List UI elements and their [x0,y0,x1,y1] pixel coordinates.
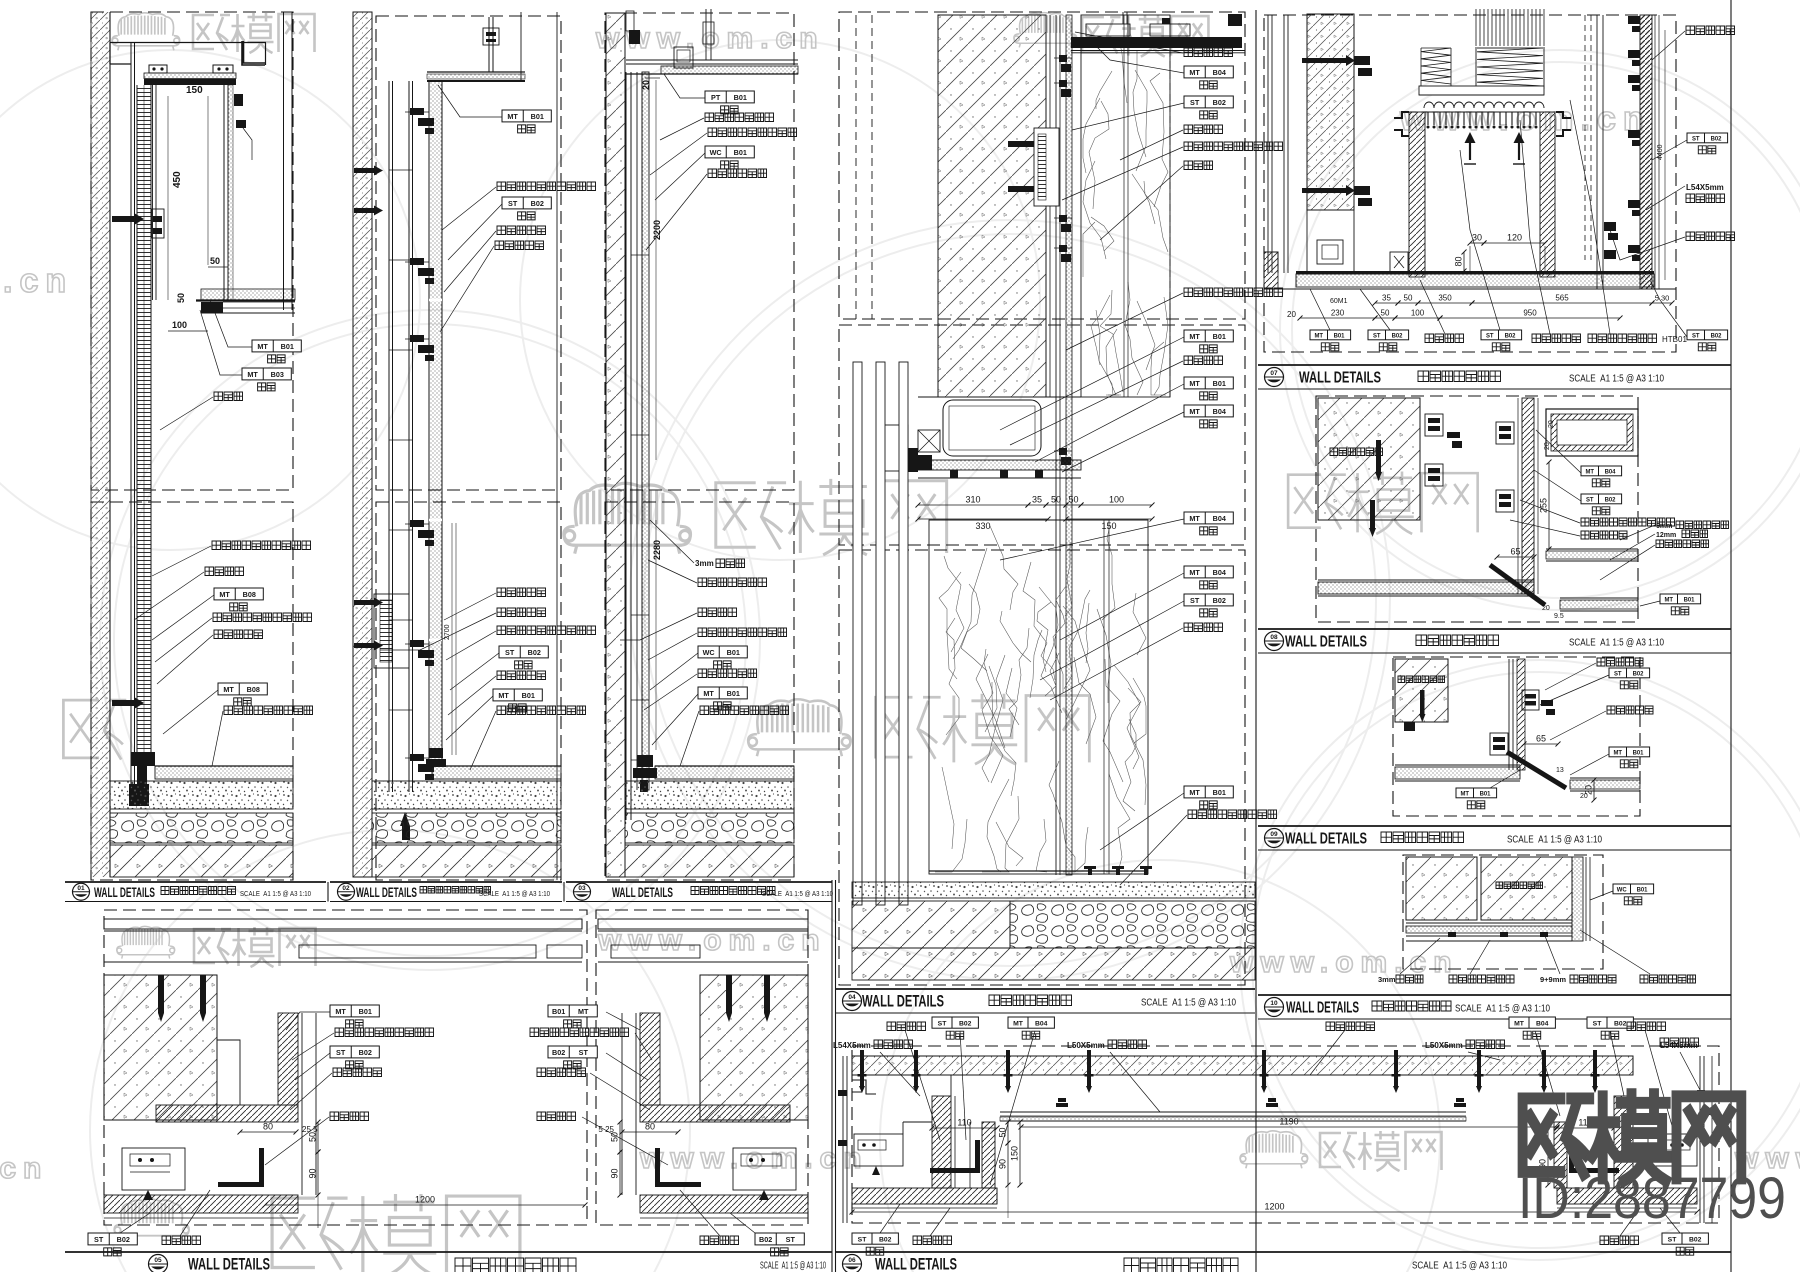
panel01 hanger channel [149,65,167,73]
svg-text:330: 330 [975,521,990,531]
svg-text:90: 90 [610,1168,620,1178]
panel07 dim 4400 rotated [1664,30,1666,280]
svg-text:35: 35 [1382,294,1391,303]
panel07 label drymount joint right [1686,26,1735,35]
panel07 stone column right [1640,15,1652,289]
svg-text:B02: B02 [552,1048,565,1057]
svg-text:B01: B01 [1480,791,1492,797]
svg-text:SCALE A1 1:5 @ A3 1:10: SCALE A1 1:5 @ A3 1:10 [1141,997,1236,1009]
svg-text:MT: MT [1460,791,1469,797]
panel06 right cove left leg [1554,1122,1567,1188]
panel04 label floor note [1188,810,1277,819]
panel03 label PT B01 [705,91,754,103]
panel04 label MT B04 top [1184,66,1233,78]
svg-text:90: 90 [998,1159,1008,1169]
svg-text:06: 06 [848,1257,856,1264]
panel01 floor build-up bands [155,766,293,779]
watermark logo middle [748,699,850,756]
panel05 bottom label B02 ST right [755,1233,804,1245]
svg-text:1190: 1190 [1279,1117,1298,1127]
panel07 duct column right [1540,112,1555,277]
panel04 stone clips upper [1059,55,1067,62]
panel01 label MT B08 upper [214,588,263,600]
svg-text:B01: B01 [552,1007,565,1016]
panel03 floor build-up bands [655,766,794,779]
panel05 bottom label metal plate left [162,1236,201,1245]
panel01 fastener top-right [234,94,243,106]
panel04 label ST B02 d [1184,594,1233,606]
panel06 top label MT B04 right [1509,1017,1555,1028]
panel07 dim 80v [1463,252,1465,271]
panel02 label ST B02 lower [499,646,548,658]
panel04 dashed border a [839,12,1245,319]
panel05 left concrete block [104,975,217,1120]
svg-text:B02: B02 [1392,333,1404,339]
panel01 wall double line [130,43,132,800]
panel04 label lamp d [1184,623,1223,632]
svg-text:B02: B02 [1213,98,1226,107]
panel05 left step profile [217,1040,240,1105]
sheet divider vertical mid-left [831,880,833,1272]
svg-text:MT: MT [1189,568,1200,577]
svg-text:50: 50 [1068,495,1078,505]
panel05 right metal angle [655,1182,701,1187]
svg-text:02: 02 [342,885,350,892]
svg-text:ST: ST [938,1020,948,1027]
svg-text:150: 150 [1010,1146,1020,1161]
svg-text:10: 10 [1270,1000,1278,1007]
svg-text:12mm: 12mm [1656,532,1676,539]
panel04 label ST B02 top [1184,96,1233,108]
panel06 top label metal hanger [1326,1022,1375,1031]
panel05 dims vertical right [619,1122,621,1152]
panel02 existing wall hatch strip [353,12,372,877]
svg-text:13: 13 [1556,767,1564,774]
svg-text:B01: B01 [359,1007,372,1016]
svg-text:B01: B01 [522,691,535,700]
panel01 ladder column [137,85,151,766]
svg-text:om.cn: om.cn [0,1152,48,1185]
panel08 block label [1330,448,1383,456]
svg-text:ST: ST [1593,1020,1603,1027]
panel06 right cove leg [1614,1096,1633,1188]
panel03 existing wall hatch strip [606,13,625,877]
panel01 clip lower left [112,700,134,706]
svg-text:B01: B01 [1334,333,1346,339]
svg-text:ID:2887799: ID:2887799 [1518,1166,1786,1231]
panel06 dims vertical left [1007,1122,1009,1143]
svg-text:L50X5mm: L50X5mm [1425,1041,1463,1050]
panel03 label steel stud base lower [698,669,757,678]
svg-text:65: 65 [1536,734,1546,744]
panel02 stone clips [410,108,424,115]
svg-text:ST: ST [94,1235,104,1244]
svg-text:MT: MT [498,691,509,700]
panel04 marble slab lower [929,520,1148,874]
panel06 left lamp box [854,1134,903,1166]
panel10 label stud fixing [1449,975,1514,983]
panel09 clips [1522,690,1539,710]
panel07 left slats [1267,15,1269,273]
title bar 06 WALL DETAILS wall horizontal section [836,1251,1731,1253]
svg-text:09: 09 [1270,831,1278,838]
panel07 label vent louver [1588,334,1657,343]
panel01 label original column [205,567,244,576]
svg-text:MT: MT [1613,750,1622,756]
panel05 ceiling slab lines A [104,919,582,929]
sheet divider vertical mid-right [1255,10,1257,1272]
svg-text:ST: ST [858,1236,868,1243]
svg-text:B01: B01 [531,112,544,121]
svg-text:50: 50 [998,1127,1008,1137]
title divider T1/T2 [327,882,329,902]
panel02 ceiling bar [427,71,525,73]
svg-text:05: 05 [154,1257,162,1264]
svg-text:B02: B02 [959,1020,972,1027]
panel04 label joint [1184,161,1213,170]
svg-text:MT: MT [578,1007,589,1016]
watermark logo center-right [1288,472,1478,534]
panel03 label WC B01 lower [698,646,747,658]
svg-text:50: 50 [1051,495,1061,505]
panel04 concrete wall hatch [938,15,1046,397]
panel01 dashed border upper [91,12,293,490]
panel06 bottom label metal plate right [1600,1236,1639,1245]
panel01 ceiling slab line [110,42,266,44]
panel06 right wall assembly [1699,1056,1701,1223]
panel10 dashed border [1403,855,1603,969]
panel04 label galv angle [1184,142,1283,151]
panel05 label stone fixing left [333,1068,382,1077]
panel06 bottom label ST B02 left [852,1233,898,1244]
panel04 blind slats [853,362,862,905]
panel08 label MT B04 [1581,466,1622,476]
panel01 label MT B03 [242,368,291,380]
panel08 label galv angle [1581,518,1675,526]
watermark big logo bottom-right [1523,1094,1742,1180]
panel06 dim 110 left [932,1127,997,1129]
title bar 05 WALL DETAILS wall horizontal section [65,1251,832,1253]
panel03 label cement board lower [698,628,787,637]
title bar 09 WALL DETAILS wall horizontal section [1258,825,1731,827]
svg-text:MT: MT [257,342,268,351]
svg-text:HTB01: HTB01 [1662,335,1687,344]
svg-text:ST: ST [579,1048,589,1057]
svg-text:MT: MT [223,685,234,694]
svg-text:50: 50 [1404,294,1413,303]
panel04 sill supports [950,470,958,478]
svg-text:B04: B04 [1213,68,1226,77]
watermark sofa+logo bottomleft-paneltop [117,926,175,958]
panel01 ceiling angle right [242,41,265,65]
panel02 label floor note lower [497,706,586,715]
panel08 clips on block [1425,414,1443,436]
panel07 anchor bolts left [1302,58,1346,63]
panel06 bottom label ST B02 right [1662,1233,1708,1244]
svg-text:90: 90 [308,1168,318,1178]
svg-text:450: 450 [172,171,183,188]
panel03 wall lines [625,72,627,820]
panel07 label ST B02 bottom b [1481,330,1522,340]
panel08 mid right bars [1546,548,1638,550]
panel07 comb teeth [1428,112,1536,125]
title bar 01 WALL DETAILS structural column section [65,881,326,883]
svg-text:230: 230 [1331,309,1345,318]
panel04 label MT B04 c [1184,512,1233,524]
svg-text:B02: B02 [359,1048,372,1057]
panel04 label MT B01 b [1184,377,1233,389]
svg-text:B02: B02 [879,1236,892,1243]
panel02 label MT B01 [502,110,551,122]
panel02 floor build-up bands [432,766,561,779]
panel07 concrete column [1307,14,1354,210]
svg-text:950: 950 [1523,309,1537,318]
panel06 left cove leg [932,1096,951,1188]
panel04 marble joints upper [1123,15,1125,397]
title bar 03 WALL DETAILS fabric wall section [566,881,832,883]
panel06 left cove wall lines [954,1096,956,1188]
panel05 right anchors [726,975,732,1013]
panel07 dims 30 120 [1470,242,1484,244]
svg-text:60M1: 60M1 [1330,298,1348,305]
svg-text:WC: WC [710,148,723,157]
panel09 diagonal connector [1507,752,1566,788]
panel02 label stone anchor lower [497,671,546,680]
panel05 left anchors [158,975,164,1013]
panel05 label B02 ST right [548,1046,597,1058]
panel08 wall column [1522,398,1534,594]
panel02 dim extension [451,523,453,755]
svg-text:1200: 1200 [1264,1202,1284,1212]
svg-text:120: 120 [1507,233,1522,243]
svg-text:04: 04 [848,994,856,1001]
panel03 board strip stippled [642,72,649,790]
panel06 left cove angle [930,1168,980,1173]
panel04 ceiling hanger boxes [1086,24,1130,36]
panel07 bracket right [1556,112,1571,136]
panel05 bottom label ST B02 left [88,1233,137,1245]
svg-text:ST: ST [505,648,515,657]
panel05 left lamp fixture [122,1148,185,1190]
panel06 top label ST B02 left [932,1017,978,1028]
panel04 marble slab upper [1081,15,1170,397]
svg-text:B04: B04 [1213,568,1226,577]
svg-text:B04: B04 [1605,469,1617,475]
panel02 label MT B01 lower [493,689,542,701]
panel03 dashed border upper [605,13,794,490]
svg-text:50: 50 [308,1132,318,1142]
svg-text:50: 50 [210,256,220,266]
panel01 leader joint gap [214,392,243,401]
panel06 dim 1190 [1021,1126,1557,1128]
panel07 label ST B02 right upper [1687,133,1728,143]
panel05 left cove structure [278,1013,298,1105]
svg-text:MT: MT [703,689,714,698]
panel06 left edge assembly [842,1056,844,1223]
svg-text:50: 50 [176,293,186,303]
svg-text:9+9mm: 9+9mm [1540,975,1566,984]
svg-text:SCALE A1 1:5 @ A3 1:10: SCALE A1 1:5 @ A3 1:10 [1569,638,1664,649]
panel07 dashed border [1264,15,1676,352]
svg-text:B03: B03 [271,370,284,379]
panel02 stone joints [429,299,442,302]
svg-text:MT: MT [1664,597,1673,603]
svg-text:ST: ST [1190,596,1200,605]
panel02 label drymount joint [495,241,544,250]
panel09 label ST B02 [1609,668,1650,678]
svg-text:20: 20 [1542,605,1550,612]
svg-text:01: 01 [77,885,85,892]
panel07 scalloped diffuser [1424,102,1544,108]
svg-text:B02: B02 [1711,333,1723,339]
svg-text:MT: MT [1189,788,1200,797]
title bar 08 WALL DETAILS wall horizontal section [1258,628,1731,630]
panel03 label MT B01 lower [698,687,747,699]
svg-text:MT: MT [247,370,258,379]
panel02 furring studs [388,81,390,792]
title divider T2/T3 [563,882,565,902]
svg-text:B02: B02 [1505,333,1517,339]
svg-text:20: 20 [1548,420,1555,428]
panel01 label MT B01 [252,340,301,352]
svg-text:www.om.cn: www.om.cn [1229,946,1459,979]
title bar 02 WALL DETAILS stone wall section [330,881,562,883]
svg-text:L54X5mm: L54X5mm [833,1041,871,1050]
panel06 dim 110 right [1557,1127,1614,1129]
panel01 inner wall lines [152,85,154,300]
svg-text:om.cn: om.cn [0,262,73,300]
panel09 dashed border [1393,657,1640,816]
panel05 right concrete block [700,975,808,1120]
panel06 right lamp box [1648,1134,1697,1166]
svg-text:20: 20 [641,80,651,90]
panel04 label galv angle mid [1184,288,1283,297]
svg-text:B01: B01 [1213,788,1226,797]
svg-text:100: 100 [1411,309,1425,318]
panel01 label floor finish note [224,706,313,715]
panel02 embedded plate [374,594,409,668]
svg-text:MT: MT [1585,469,1594,475]
svg-text:3mm: 3mm [1378,975,1396,984]
svg-text:ST: ST [1373,333,1381,339]
panel07 clip mid right [1604,222,1616,231]
svg-text:WC: WC [1617,887,1628,893]
svg-text:3mm: 3mm [695,559,714,568]
panel10 label stud base [1640,975,1696,983]
svg-text:PT: PT [711,93,721,102]
svg-text:WALL DETAILS: WALL DETAILS [1285,831,1367,848]
panel04 wall base supports [929,870,1148,872]
panel06 ceiling boards [1000,1111,1466,1113]
svg-text:80: 80 [1454,256,1464,266]
watermark sofa+logo bottom-left [114,1199,189,1241]
svg-text:80: 80 [645,1122,655,1132]
svg-text:B02: B02 [528,648,541,657]
panel04 dashed border b [839,325,1245,545]
svg-text:565: 565 [1555,294,1569,303]
panel01 floor ledge [201,289,295,300]
panel08 diagonal connector [1490,565,1545,605]
panel04 anchor bolts [1008,141,1038,147]
panel07 step left [1264,252,1278,273]
panel04 label concealed lamp [1184,356,1223,365]
svg-text:WALL DETAILS: WALL DETAILS [356,885,417,900]
panel07 label ST B02 bottom a [1368,330,1409,340]
svg-text:B02: B02 [1605,497,1617,503]
panel03 label steel stud fixing [705,113,774,122]
panel01 label MT B08 lower [218,683,267,695]
panel02 ceiling hanger rod [488,17,490,72]
title bar 07 WALL DETAILS wall vertical section [1258,364,1731,366]
panel05 ceiling slab lines B [598,919,808,929]
svg-text:20: 20 [1584,785,1594,795]
svg-text:SCALE A1 1:5 @ A3 1:10: SCALE A1 1:5 @ A3 1:10 [1569,374,1664,385]
panel06 left cove right leg [982,1122,995,1188]
svg-text:SCALE A1 1:5 @ A3 1:10: SCALE A1 1:5 @ A3 1:10 [479,889,550,898]
svg-text:L54X5mm: L54X5mm [1686,183,1724,192]
svg-text:2700: 2700 [444,624,451,640]
svg-text:B02: B02 [1711,136,1723,142]
panel10 right wall bar [1572,857,1583,941]
panel08 label stud base [1656,540,1709,548]
panel02 wall base [429,748,443,758]
svg-text:B02: B02 [117,1235,130,1244]
panel07 lower fixtures [1317,240,1343,264]
panel05 label MT B01 left [330,1005,379,1017]
panel10 label WC B01 [1613,884,1654,894]
svg-text:B01: B01 [1633,750,1645,756]
panel07 accordion large [1477,48,1543,86]
panel05 right cove structure [640,1013,660,1105]
panel08 clips on column [1496,422,1514,444]
watermark logo top-middle [1014,13,1077,48]
svg-text:B01: B01 [1637,887,1649,893]
panel02 label stone anchor [497,226,546,235]
svg-text:310: 310 [965,495,980,505]
panel09 dim 65 [1524,743,1558,745]
panel04 label MT B04 b [1184,405,1233,417]
svg-text:150: 150 [186,85,203,96]
svg-text:4400: 4400 [1657,144,1664,160]
watermark sofa+logo center-left [564,483,691,553]
panel04 dims row [918,504,1028,506]
svg-text:www.om.cn: www.om.cn [639,1142,869,1175]
panel02 dashed border upper [376,16,561,490]
svg-text:WALL DETAILS: WALL DETAILS [1286,1000,1359,1017]
panel08 top right frame [1546,409,1638,456]
panel03 label original wall [698,608,737,617]
svg-text:WALL DETAILS: WALL DETAILS [1285,634,1367,651]
panel08 dim 65 [1497,556,1534,558]
watermark sofa+logo bottom-center [1240,1131,1308,1169]
svg-text:ST: ST [1486,333,1494,339]
panel04 marble joints lower [1103,520,1105,874]
svg-text:WALL DETAILS: WALL DETAILS [612,885,673,900]
panel04 label MT B01 floor [1184,786,1233,798]
panel01 label galv square tube [212,541,311,550]
svg-text:100: 100 [172,320,187,330]
panel07 label concealed spot [1425,334,1464,343]
panel04 label MT B01 a [1184,330,1233,342]
watermark sofa+logo top-left [112,13,180,51]
svg-text:MT: MT [1189,514,1200,523]
panel01 wall base [131,752,155,766]
svg-text:SCALE A1 1:5 @ A3 1:10: SCALE A1 1:5 @ A3 1:10 [1507,835,1602,846]
svg-text:ST: ST [1586,497,1594,503]
svg-text:MT: MT [1314,333,1323,339]
svg-text:B02: B02 [1213,596,1226,605]
panel06 dim 1200 [852,1211,1697,1213]
